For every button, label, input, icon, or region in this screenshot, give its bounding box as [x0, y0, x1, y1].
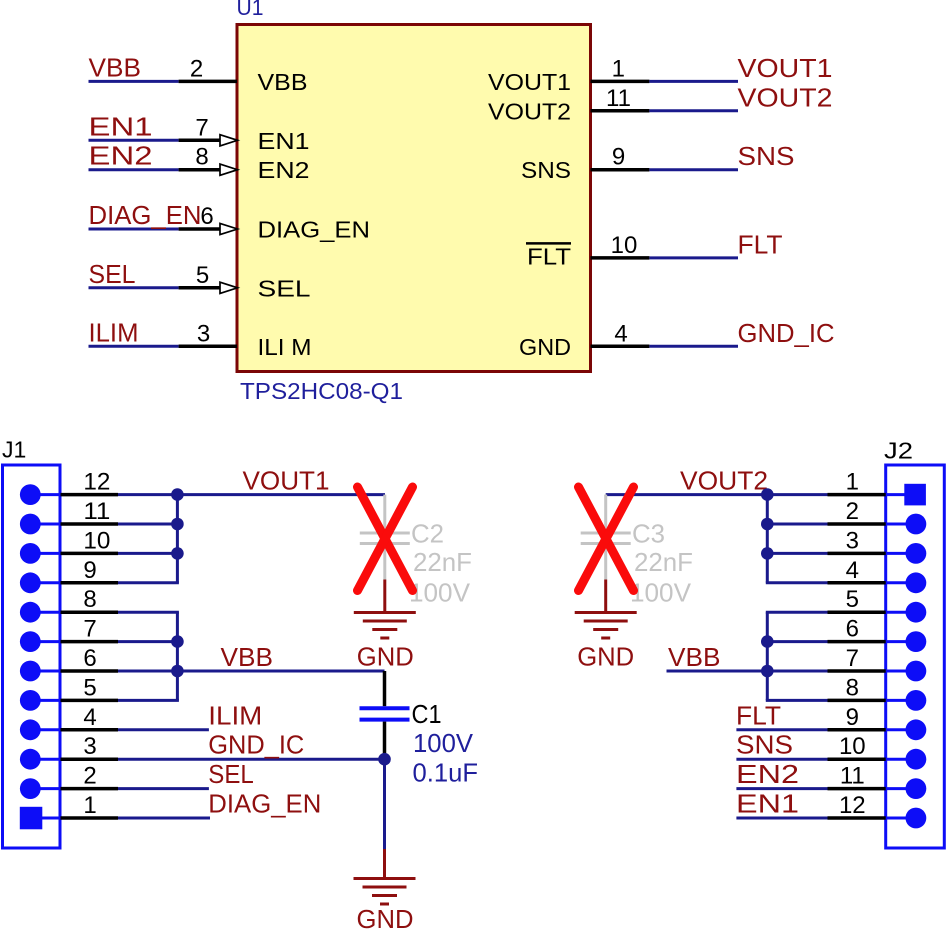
svg-text:3: 3 — [846, 527, 859, 554]
J1 pin 6 round pad — [20, 661, 41, 682]
wire net SNS (right) — [649, 168, 738, 171]
wire from J1 pin 12 — [118, 493, 179, 496]
J1 pin 3 round pad — [20, 749, 41, 770]
svg-text:11: 11 — [606, 85, 631, 112]
connector J2 body — [886, 465, 945, 848]
svg-text:ILIM: ILIM — [89, 317, 139, 347]
J1 pin 5 stub — [30, 699, 60, 702]
J1 pin 2 round pad — [20, 778, 41, 799]
svg-text:GND: GND — [577, 642, 634, 672]
junction J1 pin 11 — [171, 518, 184, 531]
svg-text:4: 4 — [614, 320, 627, 347]
svg-text:2: 2 — [846, 498, 859, 525]
pin 6 of U1 (DIAG_EN) — [179, 227, 220, 231]
J1 pin 4 round pad — [20, 719, 41, 740]
J1 pin 12 round pad — [20, 484, 41, 505]
svg-text:SEL: SEL — [208, 759, 254, 789]
J2 pin 10 round pad — [906, 749, 927, 770]
svg-text:11: 11 — [83, 498, 110, 525]
capacitor C1 plates — [360, 706, 410, 710]
wire vertical bus J2 pins 5-8 — [766, 612, 769, 700]
wire net VBB to C1 — [177, 670, 384, 673]
J2 pin 2 lead — [828, 522, 886, 526]
wire net SNS to J2 pin 10 — [736, 758, 827, 761]
J1 pin 1 square pad — [20, 807, 43, 830]
svg-text:100V: 100V — [409, 578, 471, 608]
svg-text:EN1: EN1 — [89, 111, 153, 141]
J1 pin 2 lead — [61, 787, 119, 791]
wire from J1 pin 11 — [118, 523, 179, 526]
J1 pin 3 lead — [61, 757, 119, 761]
junction J1 pin 7 — [171, 635, 184, 648]
op-amp U1 body (TPS2HC08-Q1 high-side switch) — [237, 25, 591, 372]
J1 pin 1 lead — [61, 816, 119, 820]
junction J2 pin 1 — [761, 488, 774, 501]
J1 pin 4 stub — [30, 728, 60, 731]
wire net VOUT2 from C3 to J2 — [606, 493, 828, 496]
J2 pin 8 round pad — [906, 690, 927, 711]
svg-text:DIAG_EN: DIAG_EN — [208, 789, 321, 819]
J2 pin 4 stub — [886, 581, 916, 584]
junction J1 pin 6 — [171, 665, 184, 678]
svg-text:4: 4 — [846, 557, 859, 584]
svg-text:VOUT2: VOUT2 — [738, 82, 833, 112]
wire vertical bus J2 pins 1-4 — [766, 495, 769, 583]
svg-text:GND_IC: GND_IC — [208, 730, 304, 760]
svg-text:C2: C2 — [411, 519, 444, 549]
J2 pin 5 round pad — [906, 602, 927, 623]
svg-text:100V: 100V — [630, 578, 692, 608]
J1 pin 4 lead — [61, 728, 119, 732]
svg-text:2: 2 — [83, 763, 96, 790]
svg-text:J1: J1 — [2, 437, 26, 463]
wire net EN2 to J2 pin 11 — [736, 787, 827, 790]
wire C1 to ground — [383, 759, 386, 849]
J1 pin 7 stub — [30, 640, 60, 643]
svg-text:GND: GND — [357, 904, 414, 931]
svg-text:SEL: SEL — [89, 259, 136, 289]
svg-text:EN1: EN1 — [258, 128, 310, 154]
J2 pin 12 stub — [886, 817, 916, 820]
input arrow on pin 7 — [220, 135, 238, 146]
J2 pin 7 round pad — [906, 661, 927, 682]
wire net VOUT1 (right) — [649, 80, 738, 83]
svg-text:3: 3 — [197, 320, 210, 347]
J2 pin 12 round pad — [906, 808, 927, 829]
svg-text:1: 1 — [846, 469, 859, 496]
wire net ILIM from J1 pin 4 — [118, 728, 209, 731]
junction J2 pin 6 — [761, 635, 774, 648]
connector J1 body — [3, 465, 61, 848]
J2 pin 11 lead — [828, 787, 886, 791]
J2 pin 10 stub — [886, 758, 916, 761]
capacitor C3 plates (ghost) — [581, 532, 631, 535]
svg-text:GND: GND — [519, 334, 571, 360]
svg-text:FLT: FLT — [736, 700, 781, 730]
svg-text:10: 10 — [611, 232, 638, 259]
svg-text:SNS: SNS — [736, 730, 793, 760]
wire net DIAG_EN (left) — [89, 228, 179, 231]
ground symbol at C3 — [604, 580, 607, 613]
svg-text:12: 12 — [83, 469, 110, 496]
svg-text:1: 1 — [612, 55, 625, 82]
J2 pin 11 round pad — [906, 778, 927, 799]
svg-text:C3: C3 — [632, 519, 665, 549]
wire net VOUT1 to C2 — [177, 493, 385, 496]
junction J2 pin 2 — [761, 518, 774, 531]
svg-text:9: 9 — [612, 144, 625, 171]
pin 10 of U1 (FLT) — [591, 256, 650, 260]
J1 pin 9 round pad — [20, 572, 41, 593]
svg-text:4: 4 — [83, 704, 96, 731]
J1 pin 3 stub — [30, 758, 60, 761]
svg-text:EN2: EN2 — [258, 157, 310, 183]
svg-text:6: 6 — [846, 616, 859, 643]
wire net VBB (left) — [89, 80, 179, 83]
capacitor C2 bottom lead (ghost) — [383, 545, 386, 579]
input arrow on pin 5 — [220, 282, 238, 293]
wire net GND_IC (right) — [649, 345, 738, 348]
svg-text:VOUT1: VOUT1 — [243, 466, 330, 496]
junction J2 pin 7 — [761, 665, 774, 678]
J2 pin 7 lead — [828, 669, 886, 673]
svg-text:ILIM: ILIM — [208, 700, 262, 730]
J1 pin 8 lead — [61, 610, 119, 614]
pin 2 of U1 (VBB) — [179, 80, 237, 84]
svg-text:DIAG_EN: DIAG_EN — [89, 200, 202, 230]
J1 pin 7 round pad — [20, 631, 41, 652]
J2 pin 10 lead — [828, 757, 886, 761]
J2 pin 4 lead — [828, 581, 886, 585]
svg-text:GND: GND — [357, 642, 414, 672]
J2 pin 5 stub — [886, 611, 916, 614]
J2 pin 11 stub — [886, 787, 916, 790]
J1 pin 9 stub — [30, 581, 60, 584]
svg-text:8: 8 — [195, 144, 208, 171]
wire from J2 pin 6 — [766, 640, 828, 643]
pin 8 of U1 (EN2) — [179, 168, 220, 172]
svg-text:9: 9 — [83, 557, 96, 584]
J1 pin 11 stub — [30, 523, 60, 526]
J1 pin 11 round pad — [20, 514, 41, 535]
svg-text:0.1uF: 0.1uF — [413, 757, 479, 787]
svg-text:VOUT1: VOUT1 — [738, 53, 833, 83]
svg-text:ILI M: ILI M — [258, 334, 312, 360]
wire net SEL from J1 pin 2 — [118, 787, 209, 790]
svg-text:6: 6 — [200, 203, 213, 230]
svg-text:1: 1 — [83, 792, 96, 819]
svg-text:9: 9 — [846, 704, 859, 731]
J2 pin 1 stub — [886, 493, 916, 496]
J1 pin 11 lead — [61, 522, 119, 526]
wire net EN1 to J2 pin 12 — [736, 817, 827, 820]
J1 pin 5 lead — [61, 699, 119, 703]
wire net VBB (right) — [667, 670, 768, 673]
svg-text:6: 6 — [83, 645, 96, 672]
wire from J2 pin 3 — [766, 552, 828, 555]
svg-text:TPS2HC08-Q1: TPS2HC08-Q1 — [240, 378, 403, 404]
svg-text:12: 12 — [839, 792, 866, 819]
junction J2 pin 3 — [761, 547, 774, 560]
junction J1 pin 10 — [171, 547, 184, 560]
pin 3 of U1 (ILIM) — [179, 345, 237, 349]
J2 pin 1 square pad — [904, 484, 926, 506]
junction J1 pin 12 — [171, 488, 184, 501]
ground symbol below C1 — [383, 849, 386, 879]
svg-text:2: 2 — [190, 55, 203, 82]
J2 pin 2 round pad — [906, 514, 927, 535]
svg-text:VOUT2: VOUT2 — [680, 466, 768, 496]
svg-text:VOUT2: VOUT2 — [488, 98, 571, 124]
wire from J1 pin 10 — [118, 552, 179, 555]
wire from J1 pin 6 — [118, 670, 179, 673]
svg-text:7: 7 — [846, 645, 859, 672]
svg-text:22nF: 22nF — [634, 547, 693, 577]
J1 pin 2 stub — [30, 787, 60, 790]
J1 pin 9 lead — [61, 581, 119, 585]
wire net EN1 (left) — [89, 139, 179, 142]
svg-text:10: 10 — [83, 527, 110, 554]
J2 pin 9 round pad — [906, 719, 927, 740]
pin 4 of U1 (GND) — [591, 345, 650, 349]
wire net ILIM (left) — [89, 345, 179, 348]
J1 pin 5 round pad — [20, 690, 41, 711]
svg-text:VOUT1: VOUT1 — [488, 69, 571, 95]
J1 pin 8 stub — [30, 611, 60, 614]
J2 pin 2 stub — [886, 523, 916, 526]
J1 pin 6 lead — [61, 669, 119, 673]
capacitor C2 top lead (ghost) — [383, 495, 386, 531]
svg-text:EN1: EN1 — [736, 789, 799, 819]
wire net VOUT2 (right) — [649, 109, 738, 112]
svg-text:VBB: VBB — [258, 69, 308, 95]
J1 pin 10 lead — [61, 552, 119, 556]
J2 pin 3 stub — [886, 552, 916, 555]
J2 pin 3 round pad — [906, 543, 927, 564]
wire net DIAG_EN from J1 pin 1 — [118, 817, 210, 820]
wire from J1 pin 7 — [118, 640, 179, 643]
wire net FLT to J2 pin 9 — [736, 728, 827, 731]
svg-text:FLT: FLT — [527, 243, 571, 269]
pin 7 of U1 (EN1) — [179, 139, 220, 143]
red X no-fit mark over C2 — [358, 487, 413, 591]
svg-text:22nF: 22nF — [413, 547, 472, 577]
junction at C1 / GND_IC — [378, 753, 391, 766]
J2 pin 6 round pad — [906, 631, 927, 652]
svg-text:U1: U1 — [237, 0, 264, 20]
capacitor C2 plates (ghost) — [360, 532, 410, 535]
wire from J2 pin 8 — [766, 699, 828, 702]
svg-text:C1: C1 — [412, 699, 442, 729]
wire from J1 pin 8 — [118, 611, 179, 614]
svg-text:VBB: VBB — [89, 52, 142, 82]
wire from J1 pin 9 — [118, 581, 179, 584]
J1 pin 1 stub — [30, 817, 60, 820]
J2 pin 4 round pad — [906, 572, 927, 593]
wire net FLT (right) — [649, 256, 738, 259]
input arrow on pin 8 — [220, 164, 238, 175]
pin 5 of U1 (SEL) — [179, 286, 220, 290]
wire net SEL (left) — [89, 286, 179, 289]
J2 pin 5 lead — [828, 610, 886, 614]
J2 pin 8 stub — [886, 699, 916, 702]
wire from J1 pin 5 — [118, 699, 179, 702]
wire from J2 pin 2 — [766, 523, 828, 526]
J1 pin 8 round pad — [20, 602, 41, 623]
capacitor C3 top lead (ghost) — [604, 495, 607, 531]
J1 pin 12 stub — [30, 493, 60, 496]
svg-text:DIAG_EN: DIAG_EN — [258, 217, 371, 243]
svg-text:SNS: SNS — [738, 141, 795, 171]
J2 pin 9 stub — [886, 728, 916, 731]
wire vertical bus J1 pins 8-5 — [176, 612, 179, 700]
J2 pin 8 lead — [828, 699, 886, 703]
svg-text:3: 3 — [83, 733, 96, 760]
J2 pin 7 stub — [886, 670, 916, 673]
svg-text:7: 7 — [195, 114, 208, 141]
wire from J2 pin 5 — [766, 611, 828, 614]
svg-text:11: 11 — [840, 763, 865, 790]
svg-text:J2: J2 — [884, 437, 913, 463]
pin 11 of U1 (VOUT2) — [591, 109, 650, 113]
J2 pin 12 lead — [828, 816, 886, 820]
overbar on FLT pin name — [526, 242, 571, 245]
svg-text:SEL: SEL — [258, 275, 311, 301]
capacitor C1 bottom lead — [383, 722, 387, 760]
red X no-fit mark over C3 — [579, 487, 634, 591]
J1 pin 12 lead — [61, 493, 119, 497]
J2 pin 6 lead — [828, 640, 886, 644]
J2 pin 3 lead — [828, 552, 886, 556]
svg-text:5: 5 — [846, 586, 859, 613]
svg-text:10: 10 — [839, 733, 866, 760]
J1 pin 6 stub — [30, 670, 60, 673]
input arrow on pin 6 — [220, 223, 238, 234]
svg-text:5: 5 — [83, 674, 96, 701]
svg-text:EN2: EN2 — [736, 759, 799, 789]
pin 9 of U1 (SNS) — [591, 168, 650, 172]
wire from J2 pin 4 — [766, 581, 828, 584]
svg-text:VBB: VBB — [668, 642, 721, 672]
wire vertical bus J1 pins 12-9 — [176, 495, 179, 583]
wire from J2 pin 7 — [766, 670, 828, 673]
J2 pin 1 lead — [828, 493, 886, 497]
capacitor C3 bottom lead (ghost) — [604, 545, 607, 579]
svg-text:100V: 100V — [413, 728, 474, 758]
J2 pin 6 stub — [886, 640, 916, 643]
wire net EN2 (left) — [89, 168, 179, 171]
ground symbol at C2 — [383, 580, 386, 613]
pin 1 of U1 (VOUT1) — [591, 80, 650, 84]
svg-text:SNS: SNS — [521, 157, 571, 183]
J1 pin 10 round pad — [20, 543, 41, 564]
svg-text:FLT: FLT — [738, 229, 783, 259]
svg-text:VBB: VBB — [221, 642, 274, 672]
capacitor C1 top lead — [383, 671, 387, 706]
svg-text:GND_IC: GND_IC — [738, 318, 835, 348]
wire net GND_IC from J1 pin 3 — [118, 758, 385, 761]
svg-text:8: 8 — [846, 674, 859, 701]
J1 pin 10 stub — [30, 552, 60, 555]
svg-text:EN2: EN2 — [89, 141, 153, 171]
J2 pin 9 lead — [828, 728, 886, 732]
svg-text:7: 7 — [83, 616, 96, 643]
svg-text:5: 5 — [196, 262, 209, 289]
J1 pin 7 lead — [61, 640, 119, 644]
svg-text:8: 8 — [83, 586, 96, 613]
